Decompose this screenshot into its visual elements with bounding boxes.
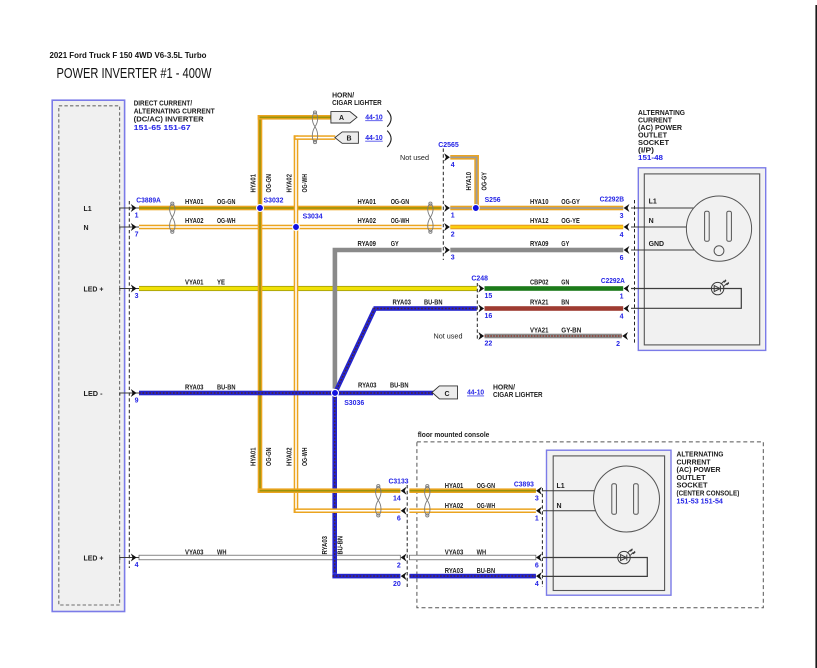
wire HYA02 OG-WH (C3133 to C3893 pin 1) [409, 508, 536, 513]
wire HYA01 OG-GN vertical branch [258, 115, 263, 493]
horn/cigar lighter heading [332, 91, 382, 108]
outlet I/P face circle [686, 196, 751, 261]
C3893 pin 3 arrow [536, 487, 542, 495]
svg-text:(I/P): (I/P) [638, 146, 655, 155]
svg-text:RYA03: RYA03 [322, 536, 329, 555]
svg-text:BU-BN: BU-BN [338, 536, 345, 555]
wire RYA03 BU-BN (inverter LED- to connector C) [139, 391, 433, 396]
C3893 pin 4 arrow [536, 572, 542, 580]
svg-text:6: 6 [397, 516, 401, 523]
floor mounted console dashed box [417, 442, 763, 608]
svg-text:Not used: Not used [434, 332, 463, 341]
outlet I/P slot right [727, 211, 732, 241]
svg-text:CBP02: CBP02 [530, 280, 549, 287]
svg-text:LED +: LED + [84, 556, 104, 563]
wire RYA03 BU-BN (corner to C3133 pin 20) [332, 574, 400, 579]
svg-text:151-65 151-67: 151-65 151-67 [134, 125, 191, 132]
C2292B pin 4 arrow [624, 223, 630, 231]
svg-text:RYA03: RYA03 [358, 382, 377, 389]
svg-text:6: 6 [535, 562, 539, 569]
wire VYA21 GY-BN (to C2292A pin 2) [485, 334, 622, 339]
inline connector pin 2 arrow [444, 223, 450, 231]
C2292B pin 3 arrow [624, 204, 630, 212]
svg-text:WH: WH [477, 550, 487, 557]
splice S3034 [293, 224, 300, 231]
wire RYA03 BU-BN (upper run to C248 pin 16) [374, 306, 477, 311]
outlet console face circle [594, 466, 660, 532]
connector C248 dashed line [476, 283, 478, 341]
svg-text:HYA01: HYA01 [185, 199, 204, 206]
svg-text:22: 22 [485, 341, 493, 348]
svg-text:N: N [649, 218, 654, 225]
svg-text:RYA09: RYA09 [358, 241, 377, 248]
svg-text:HYA01: HYA01 [358, 199, 377, 206]
wire RYA03 BU-BN diagonal [335, 308, 375, 393]
svg-text:BU-BN: BU-BN [390, 382, 409, 389]
C3133 pin 2 arrow [401, 554, 407, 562]
connector C3893 dashed line [541, 488, 543, 587]
svg-text:HYA02: HYA02 [287, 447, 294, 466]
svg-text:OG-GN: OG-GN [391, 199, 410, 206]
wire HYA01 OG-GN (branch to C3133 pin 14) [258, 488, 401, 493]
svg-text:HYA02: HYA02 [358, 218, 377, 225]
svg-text:2021 Ford Truck F 150 4WD V6-3: 2021 Ford Truck F 150 4WD V6-3.5L Turbo [50, 50, 207, 60]
svg-text:B: B [346, 135, 351, 142]
svg-text:OG-WH: OG-WH [217, 218, 236, 225]
wire RYA09 GY corner [335, 250, 442, 389]
svg-text:4: 4 [535, 581, 539, 588]
svg-text:N: N [84, 225, 89, 232]
inverter pin 9 stub [120, 393, 139, 396]
svg-text:L1: L1 [84, 206, 92, 213]
svg-text:4: 4 [620, 313, 624, 320]
svg-text:RYA21: RYA21 [530, 300, 549, 307]
svg-text:S3036: S3036 [344, 400, 364, 407]
AC outlet I/P inner box [644, 174, 759, 345]
wire RYA09 GY (to C2292B pin 6) [450, 248, 623, 253]
wire HYA12 OG-YE (to C2292B pin 4) [450, 225, 623, 230]
svg-text:OG-GN: OG-GN [266, 174, 273, 193]
svg-text:BN: BN [561, 300, 569, 307]
svg-text:C248: C248 [471, 276, 488, 283]
svg-text:1: 1 [620, 293, 624, 300]
svg-text:9: 9 [135, 398, 139, 405]
svg-text:16: 16 [485, 313, 493, 320]
svg-text:VYA03: VYA03 [185, 550, 204, 557]
svg-text:VYA03: VYA03 [445, 550, 464, 557]
svg-text:OG-WH: OG-WH [302, 174, 309, 193]
svg-text:(CENTER CONSOLE): (CENTER CONSOLE) [677, 489, 740, 498]
inverter pin 3 stub [120, 289, 139, 292]
svg-text:44-10: 44-10 [467, 390, 484, 397]
svg-text:L1: L1 [557, 483, 565, 490]
wire VYA03 WH (inverter LED+ to C3133) [139, 555, 400, 560]
outlet console lead lines [543, 491, 596, 511]
inverter pin 1 stub [120, 208, 139, 211]
svg-text:2: 2 [451, 232, 455, 239]
outlet I/P lead lines [631, 208, 695, 250]
wire RYA03 BU-BN vertical [332, 390, 337, 574]
svg-text:C2292A: C2292A [601, 278, 625, 285]
svg-text:GND: GND [649, 241, 665, 248]
svg-text:floor mounted console: floor mounted console [418, 430, 490, 439]
connector C2292 dashed line [634, 200, 636, 344]
svg-text:RYA03: RYA03 [393, 300, 412, 307]
connector A tag [331, 112, 357, 123]
connector C tag [432, 386, 458, 399]
C2565 pin 4 arrow [444, 153, 450, 161]
C248 pin 16 arrow [478, 305, 484, 313]
svg-text:151-48: 151-48 [638, 155, 663, 162]
wire HYA01 OG-GN (C3133 to C3893 pin 3) [409, 488, 536, 493]
svg-text:4: 4 [620, 232, 624, 239]
svg-text:Not used: Not used [400, 153, 429, 162]
outlet console slot right [634, 484, 639, 515]
inverter pin 9 arrow [131, 389, 137, 397]
svg-text:OG-GY: OG-GY [481, 172, 488, 191]
svg-text:HYA01: HYA01 [251, 174, 258, 193]
svg-text:4: 4 [135, 562, 139, 569]
twisted pair HYA01/HYA02 left of C3133 [376, 485, 381, 517]
C3133 pin 20 arrow [401, 572, 407, 580]
svg-text:44-10: 44-10 [365, 114, 383, 121]
wire HYA02 OG-WH (branch to C3133 pin 6) [294, 508, 401, 513]
svg-text:GY: GY [561, 241, 569, 248]
inverter pin labels [84, 206, 104, 563]
svg-text:OG-WH: OG-WH [477, 503, 496, 510]
LED indicator I/P [711, 279, 729, 295]
DC/AC inverter box [52, 100, 124, 611]
svg-text:C: C [444, 391, 449, 398]
wire CBP02 GN (to C2292A pin 1) [485, 286, 624, 291]
svg-text:6: 6 [620, 255, 624, 262]
svg-text:HYA02: HYA02 [445, 503, 464, 510]
splice S3032 [257, 205, 264, 212]
splice S256 [472, 205, 479, 212]
svg-text:OG-WH: OG-WH [302, 448, 309, 467]
svg-text:HYA10: HYA10 [530, 199, 549, 206]
svg-text:VYA01: VYA01 [185, 280, 204, 287]
svg-text:2: 2 [616, 341, 620, 348]
AC outlet console description [677, 450, 740, 498]
inline connector pin 3 arrow [444, 246, 450, 254]
wire RYA21 BN (to C2292A pin 4) [485, 306, 624, 311]
AC outlet console box [547, 450, 672, 595]
wire HYA10 OG-GY vertical [474, 155, 479, 208]
wire VYA03 WH (C3133 to C3893 pin 6) [409, 555, 536, 560]
svg-text:HYA01: HYA01 [251, 447, 258, 466]
svg-text:RYA09: RYA09 [530, 241, 549, 248]
svg-text:C2292B: C2292B [600, 197, 624, 204]
svg-text:LED -: LED - [84, 391, 104, 398]
inverter pin 7 arrow [131, 223, 137, 231]
svg-text:RYA03: RYA03 [445, 568, 464, 575]
svg-text:OG-GY: OG-GY [561, 199, 580, 206]
svg-text:S256: S256 [485, 197, 501, 204]
svg-text:C3889A: C3889A [136, 197, 161, 204]
svg-text:RYA03: RYA03 [185, 385, 204, 392]
wire stub to connector A (OG-GN) [258, 115, 331, 120]
svg-text:BU-BN: BU-BN [217, 385, 236, 392]
outlet console LED loop [543, 558, 647, 577]
svg-text:3: 3 [135, 293, 139, 300]
brace A [387, 110, 391, 126]
C248 pin 22 arrow [478, 332, 484, 340]
outlet I/P slot left [705, 211, 710, 241]
svg-text:C3893: C3893 [514, 482, 534, 489]
C2292A pin 2 arrow [622, 332, 628, 340]
connector B tag [335, 132, 359, 143]
svg-text:BU-BN: BU-BN [477, 568, 496, 575]
connector C3889A dashed line [128, 201, 130, 568]
svg-text:15: 15 [485, 293, 493, 300]
svg-text:3: 3 [620, 213, 624, 220]
outlet console slot left [612, 484, 617, 515]
LED indicator console [618, 548, 636, 564]
wire HYA10 OG-GY from C2565 [450, 155, 479, 208]
svg-text:C3133: C3133 [389, 479, 409, 486]
svg-text:HYA01: HYA01 [445, 483, 464, 490]
AC power outlet (I/P) description [638, 108, 685, 155]
svg-text:HYA02: HYA02 [287, 174, 294, 193]
inverter pin 3 arrow [131, 285, 137, 293]
svg-text:7: 7 [135, 232, 139, 239]
svg-text:A: A [339, 115, 344, 122]
C3893 pin 1 arrow [536, 507, 542, 515]
svg-text:GN: GN [561, 280, 569, 287]
svg-text:OG-GN: OG-GN [266, 448, 273, 467]
svg-text:VYA21: VYA21 [530, 328, 549, 335]
horn/cigar lighter label bottom [493, 383, 543, 400]
twisted pair HYA01/HYA02 right of C3133 [425, 485, 430, 517]
outlet I/P ground hole [714, 246, 724, 256]
svg-text:HYA02: HYA02 [185, 218, 204, 225]
connector C3133 dashed line [406, 485, 408, 587]
svg-text:S3032: S3032 [264, 197, 284, 204]
wire RYA03 BU-BN (C3133 to C3893 pin 4) [409, 574, 536, 579]
svg-text:2: 2 [397, 562, 401, 569]
svg-text:44-10: 44-10 [365, 135, 383, 142]
svg-text:20: 20 [393, 581, 401, 588]
AC outlet console inner box [553, 456, 664, 591]
C2292A pin 1 arrow [624, 285, 630, 293]
svg-text:1: 1 [451, 213, 455, 220]
svg-text:CIGAR LIGHTER: CIGAR LIGHTER [332, 98, 382, 107]
wire VYA01 YE (inverter to C248) [139, 286, 477, 291]
wire HYA10 OG-GY (to C2292B pin 3) [450, 206, 623, 211]
inverter pin 4 stub [120, 558, 139, 561]
svg-text:GY: GY [391, 241, 399, 248]
DC/AC inverter inner dashed border [59, 106, 120, 605]
wire HYA02 OG-WH (inverter to inline connector) [139, 225, 442, 230]
svg-text:POWER INVERTER #1 - 400W: POWER INVERTER #1 - 400W [57, 65, 213, 82]
svg-text:N: N [557, 503, 562, 510]
twisted pair at horn connectors [312, 111, 317, 144]
inline connector pin 1 arrow [444, 204, 450, 212]
C3133 pin 6 arrow [401, 507, 407, 515]
svg-text:C2565: C2565 [438, 142, 459, 149]
svg-text:(DC/AC) INVERTER: (DC/AC) INVERTER [134, 114, 205, 123]
C3133 pin 14 arrow [401, 487, 407, 495]
svg-text:WH: WH [217, 550, 227, 557]
C2292A pin 4 arrow [624, 305, 630, 313]
svg-text:LED +: LED + [84, 287, 104, 294]
svg-text:OG-GN: OG-GN [217, 199, 236, 206]
wire stub to connector B (OG-WH) [294, 135, 336, 140]
wire HYA01 OG-GN (inverter to inline connector) [139, 206, 442, 211]
svg-text:HYA12: HYA12 [530, 218, 549, 225]
svg-text:14: 14 [393, 496, 401, 503]
svg-text:GY-BN: GY-BN [561, 328, 581, 335]
AC outlet I/P box [638, 168, 765, 351]
svg-text:1: 1 [535, 516, 539, 523]
inverter description text [134, 99, 215, 124]
twisted pair HYA01/HYA02 at inline connector [428, 202, 433, 233]
svg-text:S3034: S3034 [303, 214, 323, 221]
svg-text:OG-YE: OG-YE [561, 218, 580, 225]
wire HYA02 OG-WH vertical branch [294, 135, 299, 513]
C248 pin 15 arrow [478, 285, 484, 293]
outlet I/P LED loop [631, 289, 741, 309]
svg-text:3: 3 [535, 496, 539, 503]
svg-text:4: 4 [451, 162, 455, 169]
brace B [387, 131, 391, 147]
splice S3036 [332, 389, 339, 396]
page right edge line [815, 5, 817, 668]
twisted pair HYA01/HYA02 at C3889A [170, 202, 175, 233]
inverter pin 7 stub [120, 227, 139, 230]
svg-text:BU-BN: BU-BN [424, 300, 443, 307]
inverter pin 1 arrow [131, 204, 137, 212]
svg-text:YE: YE [217, 280, 225, 287]
svg-text:3: 3 [451, 255, 455, 262]
svg-text:L1: L1 [649, 198, 657, 205]
C2292B pin 6 arrow [624, 246, 630, 254]
svg-text:CIGAR LIGHTER: CIGAR LIGHTER [493, 390, 543, 399]
svg-text:151-53 151-54: 151-53 151-54 [677, 498, 723, 505]
svg-text:OG-GN: OG-GN [477, 483, 496, 490]
C3893 pin 6 arrow [536, 554, 542, 562]
inverter pin 4 arrow [131, 554, 137, 562]
svg-text:HYA10: HYA10 [466, 172, 473, 191]
inline connector dashed line (C2565 + pins 1-3) [442, 149, 444, 261]
svg-text:1: 1 [135, 213, 139, 220]
svg-text:OG-WH: OG-WH [391, 218, 410, 225]
